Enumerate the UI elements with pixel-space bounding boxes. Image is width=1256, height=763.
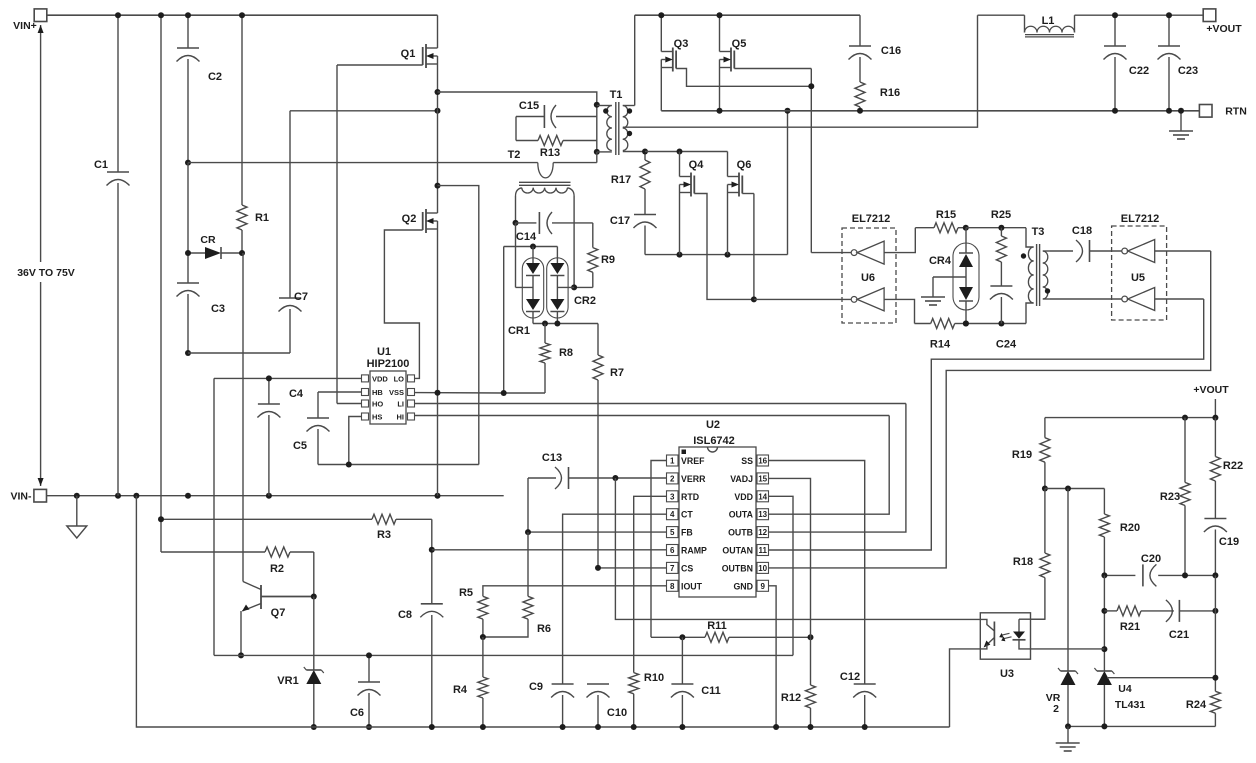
svg-text:R16: R16: [880, 87, 900, 99]
node VSS CR top net: [501, 390, 507, 396]
transistor Q5: [720, 15, 747, 111]
capacitor C12: [840, 671, 876, 727]
wire U1 VSS line: [415, 392, 504, 394]
node C8 bottom: [429, 724, 435, 730]
capacitor C9: [529, 681, 574, 727]
node U2 GND bottom: [773, 724, 779, 730]
wire U6 top input: [884, 228, 915, 253]
svg-text:R2: R2: [270, 563, 284, 575]
node RTN ground tap: [1178, 108, 1184, 114]
svg-text:36V TO 75V: 36V TO 75V: [17, 267, 75, 279]
wire RTD line: [634, 496, 667, 672]
node CR2 bottom: [554, 321, 560, 327]
node SR bus tie: [785, 108, 791, 114]
wire switch node to HS riser: [438, 186, 479, 465]
wire Q1 gate: [337, 65, 423, 404]
svg-text:R5: R5: [459, 587, 473, 599]
wire T3 bottom to U5: [1050, 298, 1122, 300]
svg-text:R17: R17: [611, 174, 631, 186]
svg-text:VDD: VDD: [372, 375, 388, 384]
wire U6 bottom input: [884, 299, 914, 323]
label 36V TO 75V: [17, 267, 75, 279]
svg-text:C13: C13: [542, 452, 562, 464]
wire T2 primary line: [188, 162, 538, 164]
capacitor C4: [257, 378, 304, 495]
zener VR1: [277, 597, 324, 728]
svg-text:C2: C2: [208, 71, 222, 83]
svg-text:C9: C9: [529, 681, 543, 693]
svg-text:9: 9: [760, 582, 765, 591]
svg-text:GND: GND: [733, 581, 753, 591]
svg-text:OUTAN: OUTAN: [722, 546, 753, 556]
wire SS line: [769, 461, 865, 685]
node Q3 drain: [658, 12, 664, 18]
dual diode CR2: [547, 247, 596, 324]
wire T1 secondary bottom line: [645, 151, 728, 153]
svg-text:T2: T2: [508, 149, 521, 161]
svg-text:C7: C7: [294, 291, 308, 303]
svg-text:R11: R11: [707, 620, 727, 632]
svg-text:L1: L1: [1042, 15, 1055, 27]
wire U1 HI line: [415, 415, 890, 417]
node sense rail R23: [1182, 415, 1188, 421]
svg-text:R21: R21: [1120, 621, 1140, 633]
wire +VOUT sense column: [1193, 384, 1229, 418]
svg-text:T1: T1: [610, 89, 623, 101]
capacitor C7: [279, 111, 309, 353]
zener VR2: [1046, 489, 1078, 727]
node T1 secondary phase dot mid: [627, 131, 632, 136]
node C20 left: [1101, 572, 1107, 578]
resistor R17: [611, 152, 650, 215]
wire T3 to C18: [1050, 250, 1073, 252]
svg-text:R10: R10: [644, 672, 664, 684]
svg-text:VREF: VREF: [681, 456, 705, 466]
svg-text:C21: C21: [1169, 629, 1189, 641]
wire Q5 gate: [734, 69, 811, 253]
wire CT line: [563, 514, 667, 684]
svg-text:3: 3: [670, 492, 675, 501]
wire VIN- rail: [47, 495, 504, 497]
capacitor C17: [610, 215, 657, 255]
svg-text:R24: R24: [1186, 699, 1207, 711]
transformer T1: [597, 89, 645, 155]
svg-text:EL7212: EL7212: [852, 213, 891, 225]
wire drive top rail: [966, 227, 1026, 229]
resistor R21: [1104, 606, 1174, 633]
node C11 top: [679, 634, 685, 640]
svg-text:R23: R23: [1160, 491, 1180, 503]
svg-text:CT: CT: [681, 510, 693, 520]
op-amp U1 HIP2100 body: [362, 346, 415, 424]
wire Q4 gate: [694, 194, 754, 300]
capacitor C5: [293, 392, 349, 465]
terminal VIN+: [13, 9, 47, 32]
svg-text:12: 12: [758, 528, 767, 537]
svg-text:R6: R6: [537, 623, 551, 635]
node VIN feed top: [158, 12, 164, 18]
node Q1 source: [435, 89, 441, 95]
resistor R20: [1099, 489, 1140, 576]
transistor Q3: [661, 15, 688, 111]
svg-text:C19: C19: [1219, 536, 1239, 548]
node T1 primary bottom: [594, 149, 600, 155]
svg-text:VR1: VR1: [277, 675, 298, 687]
svg-text:OUTBN: OUTBN: [722, 563, 753, 573]
shunt reference U4 TL431: [1094, 668, 1145, 726]
terminal RTN: [1199, 105, 1246, 118]
node Q4 drain: [677, 149, 683, 155]
wire R19 to R20: [1045, 488, 1105, 490]
wire divider mid column: [1103, 575, 1105, 671]
wire T1 center tap line: [623, 15, 978, 127]
wire C20 line: [1104, 574, 1215, 576]
resistor R5: [459, 587, 488, 637]
node Q4/Q6 gate tie: [751, 296, 757, 302]
resistor R4: [453, 637, 488, 727]
node U4 bottom: [1101, 723, 1107, 729]
svg-text:Q1: Q1: [401, 48, 416, 60]
wire CR bottoms: [533, 323, 598, 325]
capacitor C2: [177, 15, 223, 162]
svg-text:R8: R8: [559, 347, 573, 359]
wire RAMP line: [432, 549, 667, 551]
node C14 left: [513, 220, 519, 226]
svg-text:VIN-: VIN-: [11, 491, 33, 503]
node C22 top: [1112, 12, 1118, 18]
svg-text:Q2: Q2: [402, 213, 417, 225]
wire VIN feed line: [160, 15, 162, 552]
node CR anode: [185, 250, 191, 256]
svg-text:C16: C16: [881, 45, 901, 57]
driver U6 EL7212 box: [842, 213, 896, 323]
svg-text:LI: LI: [397, 400, 404, 409]
svg-text:U6: U6: [861, 272, 875, 284]
resistor R15: [915, 209, 966, 233]
node R15 right: [963, 225, 969, 231]
wire SR drain rail: [635, 14, 860, 16]
capacitor C19: [1204, 519, 1239, 576]
buffer U5 bottom: [1122, 288, 1155, 311]
svg-text:10: 10: [758, 564, 767, 573]
wire SR source bus riser: [787, 111, 789, 255]
svg-text:C8: C8: [398, 609, 412, 621]
svg-text:T3: T3: [1032, 226, 1045, 238]
node R12 bottom: [808, 724, 814, 730]
node R25 top: [998, 225, 1004, 231]
wire U2 GND line: [769, 586, 777, 727]
svg-text:OUTA: OUTA: [729, 510, 754, 520]
svg-text:11: 11: [758, 546, 767, 555]
svg-text:VIN+: VIN+: [13, 20, 37, 32]
node C12 bottom: [862, 724, 868, 730]
node R14 right: [963, 321, 969, 327]
capacitor C16: [849, 15, 902, 82]
capacitor C18: [1072, 225, 1122, 262]
capacitor C24: [990, 286, 1017, 351]
transistor Q4: [680, 152, 705, 255]
svg-text:TL431: TL431: [1115, 699, 1146, 711]
svg-text:U2: U2: [706, 419, 720, 431]
node C8/RAMP junction: [429, 547, 435, 553]
svg-text:OUTB: OUTB: [728, 528, 753, 538]
svg-text:2: 2: [670, 474, 675, 483]
wire VERR to opto: [615, 478, 980, 619]
resistor R8: [504, 324, 573, 394]
svg-text:FB: FB: [681, 528, 693, 538]
svg-text:C14: C14: [516, 231, 537, 243]
node switch node C7 tap: [435, 108, 441, 114]
svg-text:C18: C18: [1072, 225, 1092, 237]
wire VREF line: [651, 461, 667, 638]
wire U1 HS line: [349, 417, 362, 465]
node C11 bottom: [679, 724, 685, 730]
wire C15/R13 left loop: [515, 117, 517, 141]
svg-text:R22: R22: [1223, 460, 1243, 472]
resistor R10: [629, 672, 664, 727]
transistor Q6: [728, 152, 752, 255]
svg-text:R20: R20: [1120, 522, 1140, 534]
wire C3 to C7 bottom: [188, 352, 290, 354]
svg-text:R25: R25: [991, 209, 1011, 221]
wire VERR line: [617, 477, 667, 479]
wire FB line: [528, 531, 667, 533]
svg-text:R1: R1: [255, 212, 269, 224]
node R4/R5/R6 junction: [480, 634, 486, 640]
buffer U6 top: [851, 241, 884, 264]
wire output top rail: [978, 14, 1204, 16]
resistor R16: [855, 82, 900, 111]
svg-text:R19: R19: [1012, 449, 1032, 461]
svg-text:VSS: VSS: [389, 388, 404, 397]
svg-text:C3: C3: [211, 303, 225, 315]
wire Q2 gate route: [384, 230, 422, 378]
node U4 ref: [1101, 646, 1107, 652]
svg-text:1: 1: [670, 457, 675, 466]
svg-text:VADJ: VADJ: [730, 474, 753, 484]
wire OUTBN line: [769, 251, 1211, 568]
node Q7 emitter VDD rail: [238, 652, 244, 658]
wire top VIN+ rail: [47, 14, 438, 16]
svg-text:CR1: CR1: [508, 325, 530, 337]
svg-text:HI: HI: [397, 413, 405, 422]
node C10 bottom: [595, 724, 601, 730]
wire T1 secondary top riser: [634, 15, 636, 105]
optocoupler U3: [980, 613, 1030, 680]
wire U1 VDD line: [214, 377, 362, 379]
svg-text:Q4: Q4: [689, 159, 705, 171]
node R3 left: [158, 516, 164, 522]
resistor R13: [516, 136, 597, 160]
node C6 bottom: [366, 724, 372, 730]
wire CR1 mid tap: [516, 223, 534, 288]
svg-text:EL7212: EL7212: [1121, 213, 1160, 225]
node VR2 bottom: [1065, 723, 1071, 729]
svg-text:U1: U1: [377, 346, 391, 358]
node R1 top: [239, 12, 245, 18]
wire Q6 gate: [742, 194, 754, 300]
wire IOUT line: [483, 586, 667, 597]
svg-text:6: 6: [670, 546, 675, 555]
node T3 right phase dot: [1045, 288, 1050, 293]
node CR4 bottom: [963, 321, 969, 327]
node C2 top: [185, 12, 191, 18]
wire OUTAN line: [769, 299, 1204, 550]
svg-text:HO: HO: [372, 400, 383, 409]
wire VDD riser left: [213, 378, 215, 655]
ground CR4: [921, 297, 945, 305]
node R10 bottom: [631, 724, 637, 730]
wire opto cathode to U4: [1031, 648, 1105, 650]
wire R22 column lower: [1214, 575, 1216, 691]
node HS/C5 junction: [346, 462, 352, 468]
svg-text:CR4: CR4: [929, 255, 952, 267]
svg-text:+VOUT: +VOUT: [1193, 384, 1229, 396]
svg-text:HB: HB: [372, 388, 383, 397]
node C1 top: [115, 12, 121, 18]
wire U4 ref line: [1107, 677, 1215, 679]
svg-text:16: 16: [758, 457, 767, 466]
svg-text:C15: C15: [519, 100, 539, 112]
capacitor C15: [516, 100, 597, 128]
node Q4 source: [677, 252, 683, 258]
node Q6 source: [725, 252, 731, 258]
capacitor C13: [528, 452, 617, 489]
svg-text:Q6: Q6: [737, 159, 752, 171]
resistor R22: [1210, 418, 1243, 519]
wire CR4 mid to ground: [933, 277, 966, 297]
capacitor C11: [671, 637, 721, 727]
svg-text:C6: C6: [350, 707, 364, 719]
svg-text:C20: C20: [1141, 553, 1161, 565]
resistor R23: [1160, 418, 1190, 576]
node R16 bottom: [857, 108, 863, 114]
svg-text:CR: CR: [200, 234, 216, 246]
node R24 top: [1212, 675, 1218, 681]
wire CR tops rail: [504, 247, 558, 394]
resistor R1: [237, 15, 269, 253]
svg-text:Q7: Q7: [271, 607, 286, 619]
wire T2 secondary left: [515, 196, 517, 223]
svg-text:LO: LO: [394, 375, 405, 384]
wire T1 primary bottom to line: [596, 152, 598, 163]
svg-text:IOUT: IOUT: [681, 581, 703, 591]
svg-text:R12: R12: [781, 692, 801, 704]
wire Q1 source to T1: [438, 92, 597, 105]
wire R11 line: [651, 636, 705, 638]
svg-text:C24: C24: [996, 339, 1017, 351]
wire opto anode to R18: [1031, 618, 1045, 620]
wire T2 secondary right: [573, 196, 575, 287]
wire U1 LI line: [415, 403, 906, 405]
node C19 bottom: [1212, 572, 1218, 578]
svg-text:HS: HS: [372, 413, 382, 422]
svg-text:C12: C12: [840, 671, 860, 683]
wire drive bottom rail: [966, 323, 1026, 325]
node VIN- rail junctions: [74, 493, 441, 499]
svg-text:7: 7: [670, 564, 675, 573]
node T3 left phase dot: [1021, 253, 1026, 258]
resistor R12: [781, 637, 816, 727]
node C9 bottom: [560, 724, 566, 730]
node Q2 drain tap: [435, 183, 441, 189]
node Q5 source bus: [717, 108, 723, 114]
node T2 right / CR2 mid: [571, 284, 577, 290]
svg-text:Q3: Q3: [674, 38, 689, 50]
wire U6 bottom output: [754, 298, 851, 300]
node R11/VADJ junction: [808, 634, 814, 640]
svg-text:R7: R7: [610, 367, 624, 379]
node C24 bottom: [998, 321, 1004, 327]
buffer U6 bottom: [851, 288, 884, 311]
node C23 bottom: [1166, 108, 1172, 114]
svg-text:R15: R15: [936, 209, 956, 221]
node VERR junction: [612, 475, 618, 481]
resistor R18: [1013, 489, 1050, 620]
wire OUTA line: [769, 416, 890, 515]
ground RTN: [1169, 111, 1193, 139]
resistor R14: [915, 319, 966, 351]
resistor R2: [161, 547, 314, 597]
capacitor C8: [398, 550, 443, 727]
node C22 bottom: [1112, 108, 1118, 114]
diode CR: [188, 234, 242, 259]
wire RTN bus: [661, 110, 1199, 112]
node C2/C3 midpoint: [185, 160, 191, 166]
svg-text:CS: CS: [681, 563, 693, 573]
svg-text:VERR: VERR: [681, 474, 706, 484]
svg-text:C4: C4: [289, 388, 304, 400]
wire input range dimension line: [38, 25, 44, 486]
node T1 primary phase dot: [603, 108, 608, 113]
terminal +VOUT: [1203, 9, 1242, 35]
ground secondary: [1056, 726, 1080, 751]
capacitor C1: [94, 15, 130, 496]
svg-text:RAMP: RAMP: [681, 546, 707, 556]
op-amp U2 ISL6742 body: [667, 419, 769, 597]
svg-text:C23: C23: [1178, 65, 1198, 77]
svg-text:Q5: Q5: [732, 38, 747, 50]
node R8 top: [542, 321, 548, 327]
wire C13 to FB: [527, 478, 529, 532]
dual diode CR4: [929, 228, 979, 324]
node C21 right: [1212, 608, 1218, 614]
svg-text:C10: C10: [607, 707, 627, 719]
capacitor C20: [1141, 553, 1161, 586]
svg-text:CR2: CR2: [574, 295, 596, 307]
svg-text:SS: SS: [741, 456, 753, 466]
node VR1 bottom: [311, 724, 317, 730]
svg-text:14: 14: [758, 492, 767, 501]
resistor R25: [991, 209, 1011, 286]
node VSS Q2 source: [435, 390, 441, 396]
resistor R6: [483, 532, 551, 637]
wire switch node to C7: [290, 110, 438, 112]
node R17 top: [642, 149, 648, 155]
wire Q2 source: [437, 229, 439, 496]
svg-text:C5: C5: [293, 440, 307, 452]
resistor R11: [705, 620, 811, 642]
wire U5 bottom input: [1155, 298, 1204, 300]
capacitor C21: [1166, 600, 1216, 641]
svg-text:VDD: VDD: [734, 492, 753, 502]
capacitor C22: [1104, 15, 1150, 111]
wire CS line: [598, 567, 667, 569]
svg-text:C1: C1: [94, 159, 108, 171]
svg-text:U4: U4: [1118, 683, 1132, 695]
capacitor C3: [177, 163, 226, 353]
wire U1 HO line: [337, 403, 362, 405]
